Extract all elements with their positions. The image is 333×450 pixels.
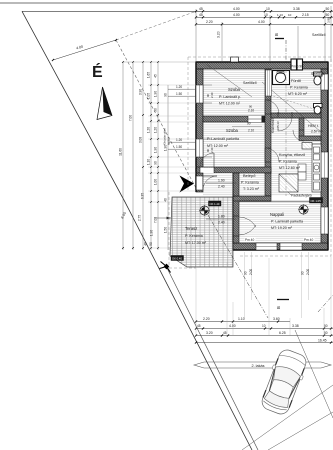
entry door + arc — [197, 176, 203, 190]
wall nappali left — [233, 196, 239, 243]
nappali double door — [233, 215, 239, 217]
svg-text:16.45: 16.45 — [318, 339, 327, 343]
svg-text:4.05 m²: 4.05 m² — [276, 121, 280, 131]
svg-text:1.90: 1.90 — [154, 91, 158, 97]
black label box nappali — [310, 198, 323, 204]
washing machine — [273, 71, 290, 85]
section B bottom — [208, 215, 268, 318]
svg-text:11.60: 11.60 — [119, 148, 123, 156]
svg-text:50: 50 — [326, 7, 330, 11]
svg-text:50: 50 — [149, 242, 153, 246]
svg-text:90: 90 — [154, 108, 158, 112]
svg-text:3.08: 3.08 — [139, 137, 143, 143]
svg-text:P: Kerámia: P: Kerámia — [290, 86, 308, 90]
left extension lines — [148, 84, 196, 86]
svg-text:Fürdő: Fürdő — [291, 79, 301, 83]
svg-text:2.57 m²: 2.57 m² — [311, 130, 323, 134]
svg-text:1.00: 1.00 — [154, 179, 158, 185]
wall belepo right — [265, 173, 271, 196]
vent stack — [291, 59, 297, 70]
wall hmv bottom — [299, 136, 321, 141]
dashed extension of 4.00 line — [116, 12, 194, 40]
terrace pointer line — [155, 217, 171, 219]
setback dashed line — [116, 40, 196, 188]
wall szoba2 bottom — [196, 167, 271, 173]
svg-text:45: 45 — [197, 324, 201, 328]
svg-text:7.00: 7.00 — [129, 115, 133, 121]
svg-text:3.88: 3.88 — [327, 17, 331, 23]
svg-text:P: Kerámia: P: Kerámia — [185, 234, 203, 238]
svg-text:3.20: 3.20 — [217, 31, 221, 38]
wall belepo/nappali — [233, 196, 271, 201]
svg-text:1.50: 1.50 — [164, 227, 168, 233]
svg-text:3.90: 3.90 — [139, 89, 143, 95]
wall szoba1/szoba2 — [203, 116, 265, 122]
window dim szoba2 — [203, 138, 212, 140]
leader szoba1 — [206, 64, 252, 97]
bottom dim rowB — [196, 328, 333, 330]
left horiz dim 1.20 1.50 upper — [168, 88, 196, 90]
top extension lines — [195, 9, 197, 62]
svg-text:4.00: 4.00 — [233, 13, 240, 17]
svg-text:90: 90 — [244, 271, 248, 275]
wc top — [314, 72, 323, 76]
bottom dim rowA — [196, 321, 290, 323]
bottom dim rowD — [196, 342, 333, 344]
svg-text:Szellőző: Szellőző — [312, 33, 326, 37]
window bottom 1 — [256, 243, 277, 250]
svg-text:1.90: 1.90 — [154, 147, 158, 153]
svg-text:Pm 0.90: Pm 0.90 — [291, 65, 303, 69]
svg-text:MT: 19.20 m²: MT: 19.20 m² — [271, 226, 293, 230]
exterior wall right — [321, 69, 328, 250]
svg-text:45: 45 — [223, 331, 227, 335]
wc lower — [314, 104, 323, 108]
svg-text:Szellőző: Szellőző — [243, 81, 257, 85]
svg-text:MT: 17.00 m²: MT: 17.00 m² — [185, 241, 207, 245]
door bath — [277, 112, 279, 117]
svg-text:3.38: 3.38 — [292, 324, 299, 328]
door gap szoba divider — [248, 116, 262, 122]
svg-text:1.20: 1.20 — [176, 85, 182, 89]
kitchen counter — [312, 144, 321, 192]
entrance arrow — [180, 176, 195, 193]
door hmv — [299, 129, 304, 131]
kitchen stove hatched — [302, 143, 312, 150]
svg-text:6.35: 6.35 — [141, 193, 145, 199]
window right nappali — [321, 207, 328, 234]
svg-text:2.40: 2.40 — [218, 185, 225, 189]
leader bath — [262, 82, 321, 132]
svg-text:B: B — [274, 33, 279, 36]
svg-text:P: Kerámia: P: Kerámia — [241, 181, 259, 185]
svg-text:45: 45 — [199, 7, 203, 11]
svg-text:40: 40 — [144, 242, 148, 246]
svg-text:40: 40 — [164, 198, 168, 202]
svg-text:2. lakás: 2. lakás — [251, 364, 264, 368]
svg-text:P: Laminált parketta: P: Laminált parketta — [271, 220, 303, 224]
car — [258, 347, 310, 417]
svg-text:6.25: 6.25 — [279, 331, 286, 335]
svg-text:Terasz: Terasz — [185, 226, 197, 231]
exterior wall left — [196, 69, 203, 173]
svg-text:1.10: 1.10 — [238, 317, 245, 321]
black label box terrace bottom — [171, 256, 184, 261]
svg-text:OK 1.05: OK 1.05 — [311, 199, 322, 203]
svg-text:1.20: 1.20 — [147, 127, 151, 133]
svg-text:épület: épület — [167, 137, 171, 145]
boundary dim 4.00 line — [53, 40, 116, 60]
svg-text:1.65: 1.65 — [147, 72, 151, 78]
terrace tiles — [170, 197, 233, 267]
entry side wall — [196, 173, 203, 192]
svg-text:2.40: 2.40 — [210, 92, 214, 98]
roof overhang dashed — [169, 57, 331, 268]
top dim row2 — [196, 16, 333, 18]
boundary point marker — [160, 262, 171, 273]
svg-text:1.13: 1.13 — [277, 13, 283, 17]
pm40 labels — [245, 238, 256, 243]
left dim chains — [122, 62, 124, 250]
svg-text:T: 3.23 m²: T: 3.23 m² — [243, 187, 260, 191]
svg-text:4.00: 4.00 — [229, 324, 236, 328]
svg-text:MT: 12.00 m²: MT: 12.00 m² — [207, 144, 229, 148]
svg-text:3.20: 3.20 — [206, 331, 213, 335]
svg-text:OK 1.40: OK 1.40 — [210, 202, 220, 206]
window right bath — [321, 74, 328, 90]
svg-text:1.90: 1.90 — [150, 230, 154, 236]
bottom dim rowC — [196, 335, 333, 337]
svg-text:10: 10 — [262, 324, 266, 328]
svg-text:1.90: 1.90 — [218, 179, 225, 183]
second parallel boundary segment — [167, 268, 258, 450]
svg-text:Padlásfeljáró: Padlásfeljáró — [291, 194, 312, 198]
svg-text:2.15: 2.15 — [302, 13, 309, 17]
belepo left wall — [233, 173, 239, 196]
door gap hall top — [200, 168, 214, 174]
plot boundary west diagonal — [22, 11, 252, 450]
svg-text:90: 90 — [164, 93, 168, 97]
attic stair — [279, 174, 298, 192]
svg-text:4.00: 4.00 — [258, 20, 265, 24]
door szoba2 — [265, 147, 271, 149]
kitchen-nappali beam line — [239, 201, 321, 203]
left horiz dim 1.20 1.50 lower — [168, 141, 196, 143]
shallow road line 2 — [268, 412, 333, 450]
svg-text:OK 0.40: OK 0.40 — [172, 257, 182, 261]
svg-text:Pm 40: Pm 40 — [304, 238, 313, 242]
window right kitchen — [321, 152, 328, 178]
svg-text:É: É — [92, 62, 103, 81]
svg-text:7.05: 7.05 — [154, 217, 158, 223]
hall floor — [203, 173, 233, 196]
top frame line — [0, 2, 333, 4]
svg-text:Közlekedő: Közlekedő — [271, 118, 275, 133]
svg-text:50: 50 — [324, 331, 328, 335]
window ext line 1 — [244, 252, 246, 318]
svg-text:10: 10 — [288, 13, 292, 17]
svg-text:Pm 40: Pm 40 — [245, 238, 254, 242]
top dim row1 — [195, 10, 197, 12]
svg-text:2.20: 2.20 — [203, 317, 210, 321]
svg-text:2.00: 2.00 — [306, 269, 310, 275]
svg-text:50: 50 — [324, 324, 328, 328]
svg-text:MT: 6.20 m²: MT: 6.20 m² — [288, 92, 308, 96]
svg-text:2.20: 2.20 — [206, 20, 213, 24]
chimney — [231, 57, 239, 62]
svg-text:2.10: 2.10 — [248, 129, 254, 133]
exterior wall bottom — [233, 243, 328, 250]
north arrow — [97, 87, 112, 120]
window szoba1 left — [196, 85, 203, 103]
window bottom 2 — [280, 243, 302, 250]
svg-text:1.05: 1.05 — [147, 93, 151, 99]
svg-text:2.00: 2.00 — [249, 269, 253, 275]
svg-text:B: B — [276, 306, 281, 309]
svg-text:1.80: 1.80 — [218, 215, 225, 219]
szellozo duct — [266, 70, 272, 96]
svg-text:Konyha, étkező: Konyha, étkező — [279, 153, 305, 157]
bottom extension lines — [195, 258, 197, 336]
svg-text:90: 90 — [247, 122, 251, 126]
steep neighbor line — [295, 330, 333, 418]
svg-text:45: 45 — [154, 74, 158, 78]
svg-text:4.00: 4.00 — [233, 7, 240, 11]
shallow road line 1 — [242, 385, 333, 450]
svg-text:90: 90 — [154, 161, 158, 165]
svg-text:45: 45 — [199, 13, 203, 17]
svg-text:1.50: 1.50 — [176, 145, 182, 149]
svg-text:P: Laminált p.: P: Laminált p. — [219, 95, 241, 99]
svg-text:2.75: 2.75 — [138, 215, 142, 221]
black label box OK140 terrace — [209, 201, 222, 206]
svg-text:P: Laminált parketta: P: Laminált parketta — [207, 137, 239, 141]
kitchen left counter — [298, 164, 306, 172]
exterior wall top — [196, 62, 328, 69]
window ext line 2 — [301, 252, 303, 318]
window dim szoba1 — [203, 84, 212, 86]
svg-text:P: Kerámia: P: Kerámia — [279, 160, 297, 164]
svg-text:3.38: 3.38 — [293, 7, 300, 11]
svg-text:1.20: 1.20 — [154, 127, 158, 133]
svg-text:MT: 12.60 m²: MT: 12.60 m² — [279, 166, 301, 170]
survey marker circle 1 — [200, 206, 209, 215]
svg-text:1.10: 1.10 — [147, 159, 151, 165]
wall hmv left — [299, 118, 304, 137]
svg-text:3.60: 3.60 — [273, 317, 280, 321]
svg-text:2.40: 2.40 — [218, 221, 225, 225]
svg-text:Szellőző: Szellőző — [311, 72, 325, 76]
wall szoba vertical — [265, 69, 271, 173]
thick exterior edges — [196, 61, 329, 63]
svg-text:MT: 12.00 m²: MT: 12.00 m² — [219, 102, 241, 106]
window szoba2 left — [196, 139, 203, 157]
svg-text:1.50: 1.50 — [176, 92, 182, 96]
survey marker circle 2 — [299, 205, 308, 214]
2.lakas band — [194, 362, 331, 368]
svg-text:1.90: 1.90 — [164, 145, 168, 151]
svg-text:90: 90 — [301, 271, 305, 275]
door szoba1 — [265, 99, 271, 101]
svg-text:1.20: 1.20 — [176, 138, 182, 142]
svg-text:50: 50 — [326, 13, 330, 17]
svg-text:Nappali: Nappali — [270, 212, 284, 217]
svg-text:10: 10 — [266, 7, 270, 11]
svg-text:Belépő: Belépő — [243, 173, 256, 178]
floor textures — [203, 69, 265, 116]
svg-text:HMV t.: HMV t. — [308, 124, 319, 128]
wall bath bottom — [271, 113, 321, 118]
svg-text:10: 10 — [264, 13, 268, 17]
svg-text:2.10: 2.10 — [248, 109, 254, 113]
plot boundary north edge — [22, 10, 333, 12]
svg-text:Szoba: Szoba — [226, 128, 239, 133]
top dim row3 — [196, 23, 333, 25]
svg-text:Szoba: Szoba — [228, 87, 241, 92]
